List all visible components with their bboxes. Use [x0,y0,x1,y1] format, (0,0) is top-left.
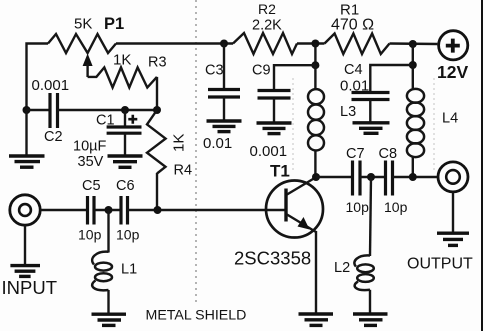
svg-text:T1: T1 [270,162,290,181]
node C9/L3 tee [311,61,319,69]
node C1 top [121,106,129,114]
svg-text:10p: 10p [346,199,370,215]
wire collector node to C7 [316,176,352,178]
svg-text:METAL SHIELD: METAL SHIELD [146,308,247,324]
capacitor C6 [121,196,128,225]
svg-text:10p: 10p [78,227,102,243]
svg-text:C3: C3 [205,63,224,79]
svg-text:C6: C6 [116,178,135,194]
resistor R2 [233,33,297,54]
svg-text:L2: L2 [334,260,350,276]
node C4 top [409,40,417,48]
inductor L1 [92,210,112,313]
svg-text:0.01: 0.01 [340,78,369,95]
svg-text:OUTPUT: OUTPUT [407,256,473,273]
wire top rail left segment [27,44,49,111]
wire node down to C9/L3 tee [314,44,316,66]
node C5/C6/L1 junction [105,206,113,214]
capacitor C8 [386,161,393,196]
svg-text:R2: R2 [258,1,276,17]
wire top rail R2 to R1 [297,42,325,44]
svg-text:0.001: 0.001 [250,143,288,160]
wire C5 to C6 [94,209,121,211]
resistor R4 [147,110,166,174]
page right border line [481,0,483,331]
svg-text:L4: L4 [442,111,458,127]
svg-text:1K: 1K [171,134,188,152]
svg-text:5K: 5K [74,16,92,33]
svg-text:R3: R3 [148,55,167,71]
node rail/C2 junction [23,106,31,114]
svg-text:C7: C7 [346,146,365,162]
wire C2 to R4 node [58,109,158,111]
svg-text:C5: C5 [82,178,101,194]
svg-text:10µF: 10µF [73,139,106,155]
ground (L2) [353,314,388,325]
ground (C3) [207,121,242,132]
svg-text:10p: 10p [116,227,140,243]
svg-text:R4: R4 [174,163,193,179]
wire top rail R1 to 12V [390,42,438,45]
ground (T1 emitter) [299,314,334,325]
wire P1 wiper stem [86,64,88,77]
svg-text:12V: 12V [437,62,468,82]
wire tee to C9 [274,65,315,90]
wire R4 bottom lead [156,173,158,210]
ground (output connector) [437,233,469,245]
wire node to C2 [27,109,51,111]
potentiometer P1 body [48,34,116,53]
svg-text:P1: P1 [104,15,124,33]
transistor T1 [266,178,323,238]
ground (left rail) [9,110,45,167]
wire input connector to ground [24,226,26,265]
INPUT connector [10,195,40,225]
capacitor C9 [258,91,291,123]
wire top rail P1 to C3 node [116,42,233,44]
capacitor C4 [352,93,390,123]
capacitor C7 [353,161,361,196]
inductor L4 [407,65,424,177]
svg-text:0.001: 0.001 [32,77,70,94]
svg-text:2SC3358: 2SC3358 [234,248,311,269]
svg-text:L3: L3 [340,104,356,120]
capacitor C1 (electrolytic) [107,110,142,155]
inductor L3 [308,65,324,177]
node C4/L4 tee [409,61,417,69]
node C7/C8/L2 junction [367,173,375,181]
wire output connector to ground [452,192,454,232]
shield dashed partition line [195,0,197,306]
inductor L2 [354,177,373,313]
svg-text:0.01: 0.01 [203,135,232,152]
svg-text:C8: C8 [379,146,398,162]
wire C8 to output [393,176,438,178]
resistor R1 [325,34,390,55]
svg-text:C2: C2 [44,129,63,145]
wire node down to C4/L4 tee [412,44,414,65]
wire T1 emitter down [315,231,317,313]
node R3/R4 junction [153,106,161,114]
shield faint dotted line left of L3 [292,78,294,172]
node R2/R1 junction [311,40,319,48]
node T1 collector / L3 bottom [312,173,320,181]
svg-text:INPUT: INPUT [2,277,58,298]
C1 plus polarity mark [128,115,137,124]
OUTPUT connector [438,162,468,192]
node R4 bottom junction [154,206,162,214]
svg-text:L1: L1 [121,262,137,278]
12V supply terminal circle [439,31,468,60]
resistor R3 [88,67,157,87]
shield faint dotted line right of L4 [433,78,435,170]
ground (C9) [257,123,292,134]
wire input to C5 [41,209,88,211]
svg-text:C1: C1 [96,113,115,129]
svg-text:C9: C9 [252,63,271,79]
ground (C4) [353,123,390,134]
wire C6 to T1 base [128,209,286,211]
svg-text:C4: C4 [344,62,363,78]
node L4 bottom junction [409,173,417,181]
svg-text:35V: 35V [78,154,104,170]
12V plus sign [446,39,460,53]
svg-text:2.2K: 2.2K [252,18,282,34]
potentiometer P1 wiper arrow [83,54,93,67]
svg-text:10p: 10p [384,199,408,215]
wire tee to C4 [370,65,413,92]
svg-text:1K: 1K [113,52,131,69]
capacitor C2 [50,93,58,128]
ground (input connector) [10,266,40,277]
wire R3 right end down [156,77,158,110]
node C3 top [220,40,228,48]
ground (C1) [108,156,143,167]
capacitor C5 [88,196,95,225]
ground (L1) [92,314,127,325]
capacitor C3 [208,44,240,121]
svg-text:470 Ω: 470 Ω [331,17,374,34]
wire C7 to C8 [360,176,385,178]
